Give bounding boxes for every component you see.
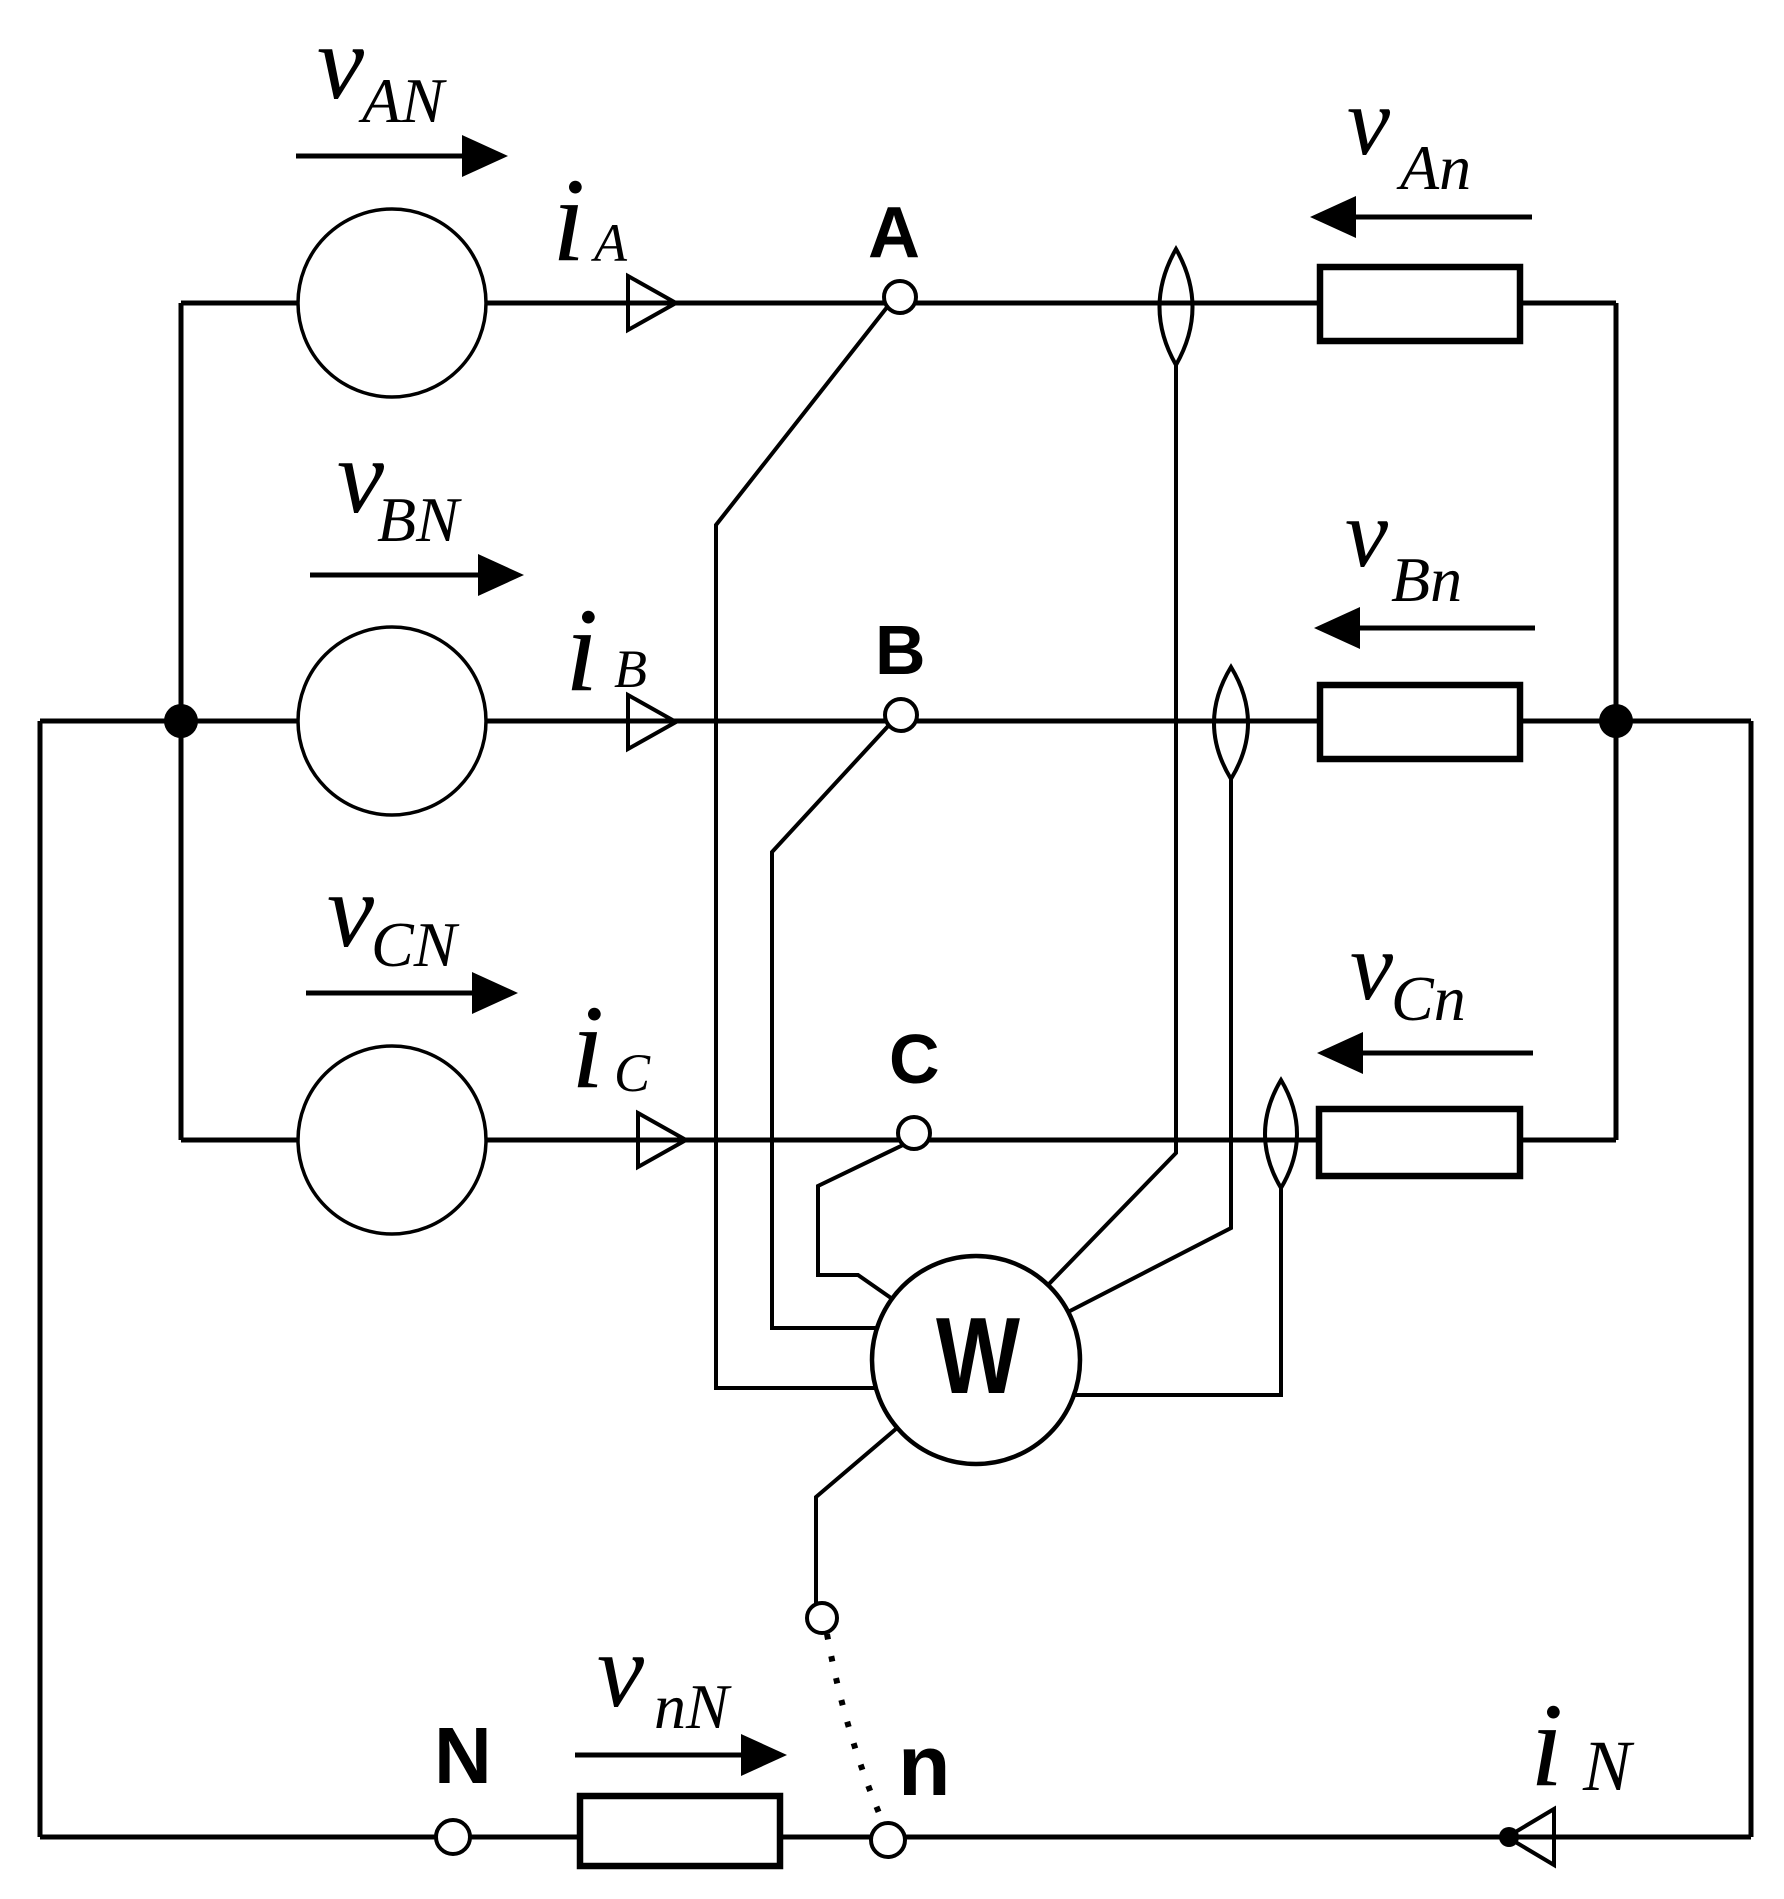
svg-text:AN: AN: [358, 65, 447, 136]
svg-text:n: n: [898, 1718, 951, 1814]
svg-text:N: N: [434, 1711, 492, 1800]
svg-text:BN: BN: [377, 484, 462, 555]
svg-text:B: B: [875, 611, 926, 689]
svg-text:nN: nN: [654, 1671, 732, 1742]
svg-text:CN: CN: [371, 909, 460, 980]
svg-text:B: B: [614, 639, 647, 699]
svg-text:i: i: [571, 980, 604, 1113]
svg-text:W: W: [936, 1295, 1020, 1417]
svg-text:Cn: Cn: [1391, 963, 1466, 1034]
svg-text:N: N: [1582, 1726, 1635, 1806]
svg-text:i: i: [565, 583, 598, 716]
svg-text:Bn: Bn: [1391, 544, 1462, 615]
svg-text:An: An: [1396, 132, 1471, 203]
svg-text:A: A: [868, 193, 920, 273]
svg-text:v: v: [597, 1612, 645, 1729]
svg-text:C: C: [889, 1020, 940, 1098]
svg-text:v: v: [1345, 480, 1389, 587]
svg-text:C: C: [614, 1043, 651, 1103]
svg-text:i: i: [1530, 1678, 1563, 1811]
svg-text:v: v: [327, 852, 375, 969]
svg-text:v: v: [317, 4, 365, 121]
svg-text:v: v: [1350, 913, 1394, 1020]
svg-text:v: v: [1347, 68, 1391, 175]
svg-text:i: i: [552, 153, 585, 286]
svg-text:A: A: [591, 213, 628, 273]
